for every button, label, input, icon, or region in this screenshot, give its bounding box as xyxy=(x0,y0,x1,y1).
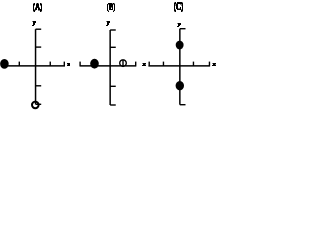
subplot C x-axis tick +1 xyxy=(192,62,194,67)
subplot B y-axis tick +2 (top end) xyxy=(110,29,116,31)
subplot B open point at (+1, 0) xyxy=(120,60,127,67)
subplot C y-axis tick +2 (top end) xyxy=(180,28,186,30)
subplot B y-axis tick -2 (bottom end) xyxy=(110,104,116,106)
subplot B x-axis label x xyxy=(142,63,146,66)
subplot B y-axis tick +1 xyxy=(110,46,116,48)
subplot C y-axis tick -2 (bottom end) xyxy=(180,104,186,106)
subplot C x-axis tick -1 xyxy=(162,62,164,67)
subplot B filled point at (-1, 0) xyxy=(90,59,99,69)
subplot C x-axis tick -2 (left end) xyxy=(148,62,150,67)
subplot A y-axis tick +2 (top end) xyxy=(36,28,42,30)
subplot B x-axis tick +1 xyxy=(122,60,124,66)
subplot A y-axis tick +1 xyxy=(36,46,42,48)
subplot C filled point at (0, +1) xyxy=(176,41,184,50)
subplot A x-axis label x xyxy=(67,63,70,66)
subplot A open point at (0, -2) xyxy=(32,102,39,109)
subplot B x-axis tick -2 (left end) xyxy=(79,62,81,67)
subplot A caption (A) xyxy=(33,3,42,12)
subplot B x-axis xyxy=(80,65,136,67)
subplot A y-axis tick -1 xyxy=(36,85,42,87)
subplot A y-axis label y xyxy=(32,21,36,26)
subplot C y-axis xyxy=(179,29,181,105)
subplot A x-axis xyxy=(4,65,65,67)
subplot A x-axis tick +1 xyxy=(49,62,51,67)
subplot A y-axis xyxy=(35,29,37,104)
subplot A x-axis tick +2 (right end) xyxy=(63,62,65,67)
subplot B x-axis tick +2 (right end) xyxy=(135,62,137,67)
subplot A y-axis tick -2 (bottom end) xyxy=(36,103,42,105)
subplot C y-axis label y xyxy=(177,23,181,27)
subplot C filled point at (0, -1) xyxy=(176,81,184,90)
subplot B caption (B) xyxy=(107,3,115,12)
subplot C x-axis xyxy=(148,65,210,67)
subplot C caption (C) xyxy=(174,2,183,12)
subplot C x-axis tick +2 (right end) xyxy=(208,62,210,67)
subplot B y-axis label y xyxy=(106,21,110,26)
subplot B y-axis tick -1 xyxy=(110,85,116,87)
subplot A filled point at (-2, 0) xyxy=(0,59,9,69)
subplot B y-axis xyxy=(109,30,111,105)
subplot C x-axis label x xyxy=(212,63,216,66)
subplot A x-axis tick -1 xyxy=(18,62,20,67)
